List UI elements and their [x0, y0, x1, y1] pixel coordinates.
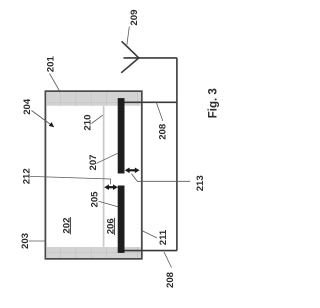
- svg-text:209: 209: [129, 10, 140, 26]
- top conductive band 201: [46, 92, 141, 106]
- leader 203: [29, 240, 46, 242]
- gap arrow 213 (double-headed): [125, 168, 140, 174]
- svg-text:208: 208: [157, 123, 168, 140]
- leader 208 bottom: [164, 252, 172, 268]
- feed network wires 208: [124, 58, 176, 251]
- label 206 underlined: [105, 218, 116, 235]
- leader 213: [131, 174, 190, 182]
- svg-text:208: 208: [165, 271, 176, 288]
- label 202 underlined: [61, 217, 72, 234]
- leader 201: [50, 74, 60, 92]
- svg-text:212: 212: [21, 168, 32, 184]
- svg-text:210: 210: [83, 115, 94, 131]
- svg-text:204: 204: [22, 98, 33, 115]
- housing outer box 204: [45, 91, 141, 259]
- radiator bar 207 (top): [118, 98, 125, 173]
- leader 207: [97, 153, 118, 163]
- svg-text:205: 205: [90, 191, 101, 208]
- antenna symbol 209: [121, 41, 177, 73]
- leader 211: [142, 231, 157, 239]
- svg-text:207: 207: [88, 154, 99, 170]
- svg-text:203: 203: [20, 233, 31, 249]
- leader 208 top: [156, 102, 163, 121]
- leader 210: [92, 115, 103, 123]
- svg-text:211: 211: [158, 229, 169, 245]
- leader 212: [30, 176, 110, 184]
- leader 205: [99, 201, 119, 207]
- svg-text:201: 201: [46, 56, 57, 73]
- svg-text:Fig. 3: Fig. 3: [208, 88, 220, 118]
- leader 209: [127, 27, 129, 45]
- leader arrow 204: [32, 111, 55, 128]
- bottom conductive band 203: [46, 247, 141, 258]
- radiator bar 206 (bottom): [118, 186, 125, 253]
- gap arrow 212 (double-headed): [104, 184, 118, 190]
- svg-text:213: 213: [195, 175, 206, 191]
- partition line 210: [103, 106, 105, 247]
